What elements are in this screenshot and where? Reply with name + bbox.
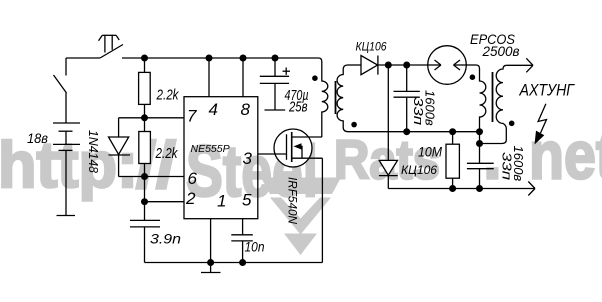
node C2-rail — [239, 259, 246, 266]
wire node2 to C1 — [144, 202, 146, 221]
transformer T1 secondary — [337, 65, 348, 132]
node C5-T2sec — [476, 140, 483, 147]
wire row A to diode — [348, 64, 362, 66]
svg-text:10М: 10М — [418, 145, 443, 160]
wire pin2 — [145, 201, 185, 203]
svg-text:33п: 33п — [411, 97, 426, 125]
transformer T1 primary — [319, 58, 328, 137]
ground C3 — [265, 109, 286, 111]
node rowC-C5 — [476, 185, 483, 192]
node T2 primary polarity dot — [470, 74, 476, 80]
svg-text:1: 1 — [217, 192, 226, 211]
wire pin8 — [242, 58, 244, 97]
svg-text:5: 5 — [242, 191, 252, 210]
lightning bolt — [535, 104, 547, 145]
svg-text:10n: 10n — [245, 239, 265, 255]
node rowA-VD3 — [385, 62, 392, 69]
node T1 primary polarity dot — [312, 75, 318, 81]
wire output top with arrow — [507, 58, 533, 72]
resistor R2 2.2k — [139, 118, 151, 177]
switch SA1 — [54, 58, 67, 123]
svg-text:2500в: 2500в — [482, 43, 520, 59]
wire top rail — [122, 57, 319, 59]
svg-text:25в: 25в — [288, 100, 308, 116]
svg-text:Rats: Rats — [334, 129, 440, 191]
wire Q1 source down — [321, 158, 323, 262]
node rail-C3 — [272, 55, 279, 62]
svg-text:КЦ106: КЦ106 — [401, 165, 438, 177]
label C5 1600в 33п — [500, 146, 527, 182]
node rowA-C4 — [403, 62, 410, 69]
svg-text:2.2k: 2.2k — [155, 145, 179, 162]
node T2 secondary polarity dot — [509, 121, 515, 127]
wire T2 to C5 node — [479, 132, 481, 144]
wire bottom rail — [145, 262, 323, 264]
op-amp U1 NE555P box — [184, 97, 258, 219]
svg-text:8: 8 — [241, 100, 251, 119]
push button SB1 — [99, 35, 124, 58]
transformer T1 core — [335, 81, 337, 114]
diode VD3 КЦ106 branch — [379, 65, 398, 189]
svg-text:1N4148: 1N4148 — [86, 130, 101, 174]
node rowC-R3 — [449, 185, 456, 192]
diode VD2 КЦ106 — [361, 56, 378, 75]
plus sign C3 — [283, 68, 291, 75]
svg-text:6: 6 — [188, 169, 198, 188]
svg-text:7: 7 — [187, 107, 197, 126]
node R2-D1-pin6 — [141, 173, 148, 180]
wire row A diode to spark gap — [378, 64, 428, 66]
node T1 secondary polarity dot — [351, 122, 357, 128]
capacitor C4 33n 1600в — [394, 65, 420, 132]
transformer T2 secondary — [480, 65, 507, 143]
transformer T2 primary — [476, 65, 486, 132]
transformer T2 core — [492, 72, 494, 122]
svg-text:18в: 18в — [27, 130, 48, 146]
svg-text:КЦ106: КЦ106 — [356, 42, 388, 54]
node rail-pin8 — [240, 55, 247, 62]
capacitor C3 470µ — [260, 58, 289, 110]
capacitor C1 3.9n — [130, 220, 160, 262]
svg-text:3: 3 — [243, 149, 253, 168]
svg-text:2: 2 — [185, 189, 196, 208]
capacitor C2 10n — [231, 219, 253, 263]
node R1-R2-D1-pin7 — [141, 114, 148, 121]
diode VD1 1N4148 — [109, 118, 131, 177]
svg-text:АХТУНГ: АХТУНГ — [519, 81, 576, 100]
node pin1-rail — [207, 259, 214, 266]
svg-text:4: 4 — [209, 100, 218, 119]
spark gap FV1 — [428, 46, 467, 85]
node rowB-C4 — [403, 128, 410, 135]
svg-text:3.9n: 3.9n — [150, 231, 181, 247]
wire row B — [348, 131, 480, 133]
wire spark gap to T2 — [466, 64, 476, 66]
svg-text:IRF540N: IRF540N — [286, 177, 300, 224]
wire pin1 — [210, 219, 212, 263]
wire pin6 — [145, 176, 185, 178]
svg-text:NE555P: NE555P — [191, 143, 230, 155]
ground battery — [57, 215, 76, 217]
label C4 1600в 33п — [411, 90, 438, 126]
watermark logo chevrons — [261, 178, 341, 256]
battery GB1 — [53, 123, 80, 215]
node rowB-T2 — [476, 128, 483, 135]
wire diode bottom — [119, 176, 145, 178]
resistor R3 10M — [446, 132, 459, 189]
node pin2 — [141, 198, 148, 205]
wire pin7 — [145, 117, 185, 119]
wire top rail left segment — [66, 57, 100, 59]
node rail-R1 — [141, 55, 148, 62]
ground pin1 — [201, 263, 221, 273]
wire node6 to node2 — [144, 177, 146, 202]
svg-text:2.2k: 2.2k — [156, 87, 180, 104]
wire node to diode top — [119, 117, 145, 119]
wire pin4 — [208, 58, 210, 97]
transistor Q1 IRF540N — [258, 129, 323, 167]
svg-text:net: net — [529, 118, 602, 194]
svg-text:.: . — [483, 118, 502, 194]
svg-text:33п: 33п — [500, 152, 515, 180]
capacitor C5 33n 1600в — [467, 144, 494, 189]
node rowB-R3 — [449, 128, 456, 135]
node rail-pin4 — [206, 55, 213, 62]
resistor R1 2.2k — [139, 58, 151, 118]
watermark text http://SteelRats.net — [0, 118, 602, 213]
wire row C with arrow — [388, 182, 535, 196]
